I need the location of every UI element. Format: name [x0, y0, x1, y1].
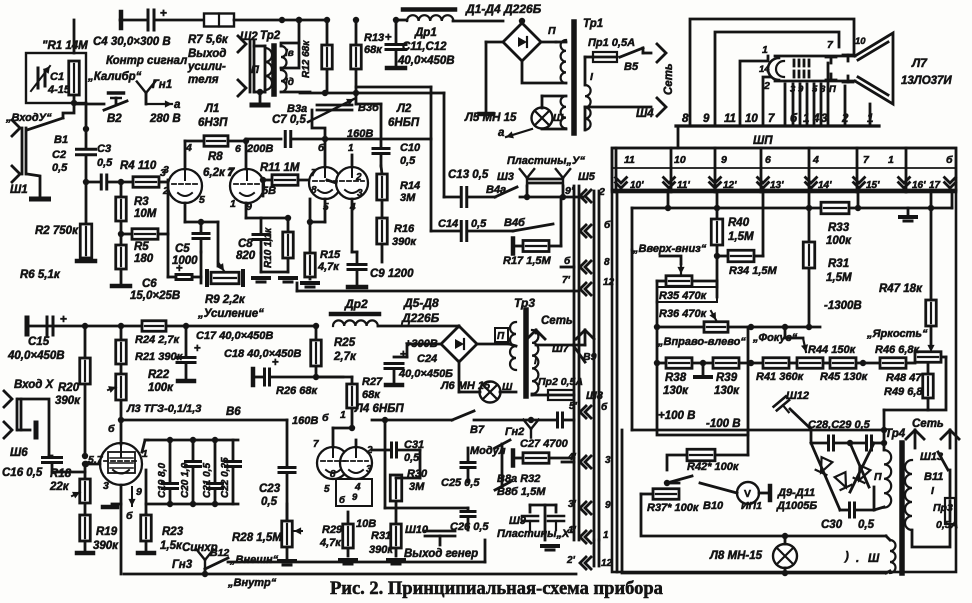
wire	[513, 457, 574, 460]
label plates Y	[507, 155, 585, 167]
label Vhod U	[5, 112, 52, 124]
svg-text:„Внешн“: „Внешн“	[229, 554, 279, 566]
svg-text:9: 9	[605, 500, 611, 511]
strip numbers	[624, 154, 953, 166]
potentiometer R9	[207, 262, 243, 285]
svg-text:R47 18к: R47 18к	[879, 283, 923, 295]
plate jack Sh5	[556, 169, 570, 197]
label VhodX	[14, 379, 55, 391]
transformer Tr2 winding II	[254, 46, 272, 92]
svg-text:0,5: 0,5	[404, 452, 420, 464]
svg-text:R9 2,2к: R9 2,2к	[205, 294, 246, 306]
label vverh-vniz	[632, 243, 707, 255]
svg-text:R27: R27	[362, 376, 383, 388]
resistor R15	[305, 253, 316, 277]
svg-text:V: V	[744, 488, 751, 500]
svg-text:40,0×450В: 40,0×450В	[7, 350, 65, 362]
wire	[18, 399, 49, 456]
svg-text:1,5М: 1,5М	[826, 272, 852, 284]
svg-text:Л3 ТГЗ-0,1/1,3: Л3 ТГЗ-0,1/1,3	[126, 403, 201, 415]
svg-text:5: 5	[199, 194, 205, 206]
label L8	[709, 550, 763, 562]
svg-text:В8а R32: В8а R32	[497, 473, 540, 485]
label vpravo-vlevo	[657, 336, 746, 348]
label kalibr	[87, 71, 142, 83]
svg-text:Пр1 0,5А: Пр1 0,5А	[588, 37, 635, 49]
label C10	[400, 142, 421, 167]
label III	[553, 112, 564, 124]
capacitor C1 box	[26, 53, 86, 103]
resistor R13	[351, 45, 362, 69]
svg-text:6: 6	[235, 143, 241, 155]
wire	[77, 502, 93, 553]
wire Sh6 gnd	[18, 423, 36, 437]
wire	[915, 430, 950, 448]
label Sh2	[240, 31, 258, 43]
wire	[641, 483, 679, 494]
svg-text:R37* 100к: R37* 100к	[647, 502, 700, 514]
label pin7	[827, 36, 866, 51]
svg-text:1: 1	[888, 154, 894, 166]
wire	[292, 136, 431, 142]
svg-text:3М: 3М	[400, 192, 416, 204]
pin 5	[323, 202, 356, 213]
svg-text:б: б	[946, 154, 953, 166]
resistor R45	[820, 358, 869, 383]
wire	[286, 420, 289, 521]
wire	[388, 482, 404, 564]
wire	[118, 323, 315, 329]
wire	[324, 139, 327, 167]
wire	[874, 443, 884, 510]
resistor R42	[687, 449, 740, 473]
svg-text:+: +	[194, 343, 201, 355]
svg-text:Ш: Ш	[868, 553, 880, 565]
wire	[536, 344, 585, 347]
svg-text:П: П	[251, 64, 260, 76]
ground mid	[695, 363, 711, 377]
label L1	[198, 103, 228, 129]
wire	[351, 155, 354, 167]
svg-text:0,5: 0,5	[97, 157, 113, 169]
svg-text:1,5М: 1,5М	[728, 231, 754, 243]
svg-text:П: П	[874, 471, 882, 483]
svg-text:6,2к 7: 6,2к 7	[203, 167, 235, 179]
ground R15	[302, 277, 318, 287]
wire	[378, 326, 459, 327]
label I 3	[534, 355, 538, 367]
pin 4	[185, 142, 192, 154]
svg-text:С6: С6	[142, 278, 157, 290]
wire	[118, 400, 124, 423]
choke Dr1	[403, 10, 455, 22]
capacitor C14	[461, 222, 467, 241]
svg-text:3: 3	[821, 113, 828, 125]
resistor R11	[260, 162, 300, 185]
capacitor C2	[77, 149, 96, 155]
ground	[253, 253, 296, 282]
resistor R41	[756, 358, 805, 383]
pin 5	[199, 194, 205, 206]
label R47	[879, 283, 923, 295]
rectifier bridge D1-D4	[503, 23, 541, 61]
chevron 4-3	[567, 452, 611, 468]
crt grids	[794, 60, 809, 77]
svg-text:С22 0,25: С22 0,25	[220, 457, 231, 498]
svg-text:R26 68к: R26 68к	[276, 385, 318, 397]
gun box L4	[336, 479, 372, 506]
svg-text:R5: R5	[134, 241, 149, 253]
capacitor C7	[272, 114, 306, 147]
svg-text:3: 3	[366, 464, 372, 475]
capacitor C3	[97, 143, 113, 189]
wire	[654, 360, 713, 366]
svg-text:390к: 390к	[392, 236, 417, 248]
svg-text:9': 9'	[565, 185, 574, 197]
switch B7	[452, 411, 485, 436]
label 160V 2	[292, 415, 318, 427]
connector net arrows	[906, 430, 959, 439]
switch B5	[620, 48, 643, 73]
arrow L3 down	[128, 487, 135, 506]
label 5V	[262, 185, 276, 197]
wire	[316, 377, 352, 428]
label B3a	[287, 103, 307, 115]
capacitor C30	[821, 503, 875, 531]
label R26	[276, 385, 318, 397]
svg-text:180: 180	[134, 253, 154, 265]
choke Dr2	[331, 314, 379, 326]
label C15	[7, 336, 65, 362]
capacitor C16	[2, 458, 62, 480]
crt heater	[768, 58, 784, 80]
label C13	[448, 169, 489, 181]
svg-text:10: 10	[674, 154, 686, 166]
tube L1	[168, 169, 264, 203]
resistor R25	[311, 337, 357, 366]
label L4	[354, 403, 404, 415]
wire	[385, 508, 468, 530]
svg-text:В2: В2	[107, 113, 122, 125]
capacitor C13	[461, 188, 467, 207]
label Id	[285, 77, 294, 88]
svg-text:П: П	[829, 84, 836, 95]
svg-text:R16: R16	[394, 223, 415, 235]
svg-text:R4 110: R4 110	[120, 160, 157, 172]
label R46	[875, 344, 921, 356]
svg-text:В1: В1	[54, 134, 68, 146]
label Sh7	[552, 343, 570, 355]
wire	[480, 42, 504, 114]
svg-text:3: 3	[163, 164, 169, 176]
svg-text:10': 10'	[630, 180, 644, 191]
svg-text:-100 В: -100 В	[706, 418, 741, 430]
svg-text:10В: 10В	[356, 518, 376, 530]
svg-text:Др2: Др2	[344, 297, 368, 311]
label pin numbers bottom	[682, 113, 873, 125]
wire	[393, 17, 399, 66]
label R28	[232, 532, 282, 544]
svg-text:Ш1: Ш1	[10, 184, 28, 196]
svg-text:1,5к: 1,5к	[160, 540, 183, 552]
wire Tr2 top	[296, 17, 302, 43]
label R16	[392, 223, 417, 248]
label Pr3 value	[936, 519, 958, 531]
switch B1	[27, 103, 74, 146]
svg-text:280 В: 280 В	[149, 113, 181, 125]
svg-text:7': 7'	[562, 275, 571, 286]
label C26	[450, 521, 489, 533]
wire lamp loop	[641, 494, 886, 536]
capacitor C26	[461, 512, 475, 517]
pin 1	[230, 198, 236, 210]
svg-text:130к: 130к	[663, 385, 689, 397]
resistor R23	[141, 515, 184, 552]
switch B9	[573, 345, 597, 363]
wire	[155, 19, 205, 22]
svg-text:„Усиление“: „Усиление“	[197, 308, 264, 320]
wire strip drops	[668, 192, 931, 208]
lamp L6	[440, 380, 513, 403]
svg-text:+: +	[385, 32, 392, 44]
wire X bus	[26, 318, 143, 334]
svg-text:Пластины„У“: Пластины„У“	[507, 155, 585, 167]
switch B3	[308, 99, 354, 139]
svg-text:6НБП: 6НБП	[388, 117, 420, 129]
capacitor C21	[202, 440, 223, 504]
transformer Tr3 winding II	[510, 322, 516, 370]
svg-text:68к: 68к	[364, 44, 383, 56]
wire	[168, 234, 201, 283]
switch B10	[664, 476, 724, 512]
svg-text:40,0×450В: 40,0×450В	[397, 55, 455, 67]
transformer Tr1 winding I	[585, 85, 591, 130]
transformer Tr4 winding I	[905, 460, 935, 530]
svg-text:3М: 3М	[409, 481, 425, 493]
svg-text:100к: 100к	[826, 235, 852, 247]
transformer Tr1 core	[571, 22, 577, 133]
label kontr	[106, 55, 187, 67]
svg-text:7: 7	[313, 439, 319, 450]
label R27	[362, 376, 383, 401]
wire B6 row	[121, 419, 287, 422]
wire	[654, 324, 754, 330]
wire	[747, 430, 750, 455]
svg-text:68к: 68к	[362, 389, 381, 401]
resistor R27	[347, 384, 358, 408]
label II 3	[495, 328, 508, 342]
crt funnel	[855, 33, 893, 104]
wire	[385, 420, 468, 508]
resistor R20	[55, 358, 90, 407]
diode D9	[816, 457, 833, 475]
svg-text:+300В: +300В	[405, 338, 438, 350]
svg-text:9: 9	[136, 486, 142, 498]
label C6	[130, 278, 180, 302]
capacitor C10	[373, 149, 389, 154]
label plastiny X	[497, 528, 575, 540]
transformer Tr4 winding III	[890, 540, 896, 573]
wire	[121, 233, 168, 236]
svg-text:Тр2: Тр2	[260, 30, 281, 42]
fuse Pr3	[945, 470, 955, 524]
svg-text:R38: R38	[665, 372, 687, 384]
wire plates row	[520, 194, 583, 200]
svg-text:R8: R8	[208, 151, 223, 163]
wire katode L1a	[185, 203, 204, 225]
tube L3	[100, 443, 142, 485]
resistor R33	[821, 202, 852, 247]
pin 57	[88, 448, 148, 498]
svg-text:Ш: Ш	[553, 112, 564, 124]
strip arrows	[616, 178, 956, 189]
svg-text:В7: В7	[470, 424, 485, 436]
svg-text:Л1: Л1	[204, 103, 219, 115]
svg-text:10М: 10М	[134, 208, 157, 220]
svg-text:В6: В6	[226, 406, 241, 418]
capacitor C31	[392, 443, 397, 457]
wire	[86, 181, 101, 184]
capacitor C9	[348, 265, 366, 270]
wire	[811, 410, 928, 443]
pin b top	[108, 423, 133, 522]
svg-text:теля: теля	[188, 74, 219, 86]
svg-text:R14: R14	[400, 180, 420, 192]
wire	[253, 369, 343, 385]
ground C11	[387, 66, 405, 71]
wire	[431, 93, 461, 231]
svg-text:Др1: Др1	[414, 27, 437, 39]
transformer Tr1 winding III	[561, 96, 566, 128]
capacitor C6	[176, 263, 192, 280]
label II	[548, 25, 556, 37]
wire anode up	[246, 139, 281, 141]
svg-text:С10: С10	[400, 142, 421, 154]
svg-text:R25: R25	[334, 337, 356, 349]
capacitor C20	[180, 440, 201, 504]
chevron 3-9	[568, 499, 611, 514]
wire main vertical	[83, 103, 89, 185]
label Sh9	[509, 515, 527, 527]
svg-text:1: 1	[340, 409, 346, 421]
label net3	[541, 315, 573, 327]
svg-text:R33: R33	[828, 222, 850, 234]
resistor R38	[663, 358, 692, 397]
svg-text:3: 3	[103, 480, 109, 492]
wire	[353, 17, 359, 104]
wire fokus stem	[751, 324, 820, 352]
svg-text:2': 2'	[566, 555, 576, 566]
svg-text:7: 7	[311, 168, 317, 179]
wire	[912, 524, 950, 547]
label 10V	[356, 518, 376, 530]
pin 6	[235, 143, 241, 155]
svg-text:390к: 390к	[369, 544, 394, 556]
svg-text:С5: С5	[175, 243, 190, 255]
chevron 9-2	[580, 190, 591, 202]
svg-text:С9 1200: С9 1200	[370, 268, 414, 280]
wire CRT loop1	[690, 19, 854, 125]
wire	[585, 57, 593, 85]
label L7	[901, 56, 952, 87]
svg-text:R46 6,8к: R46 6,8к	[875, 344, 921, 356]
connector Sh6	[4, 391, 28, 459]
jack Gn3	[172, 550, 213, 572]
label Pr1	[588, 37, 635, 49]
switch B8	[495, 440, 510, 490]
resistor R29	[343, 524, 354, 548]
wire IP1 bar	[759, 486, 770, 500]
label C25	[441, 477, 480, 489]
wire CRT baseline	[676, 126, 879, 148]
wire	[307, 199, 325, 253]
svg-text:0,5: 0,5	[400, 155, 416, 167]
svg-text:8: 8	[311, 185, 317, 196]
wire vnutr	[228, 540, 485, 562]
wire	[541, 41, 556, 44]
svg-text:R28 1,5М: R28 1,5М	[232, 532, 282, 544]
svg-text:1: 1	[603, 530, 609, 541]
wire	[200, 222, 203, 252]
wire	[542, 96, 566, 108]
rectifier bridge D5-D8	[441, 326, 477, 362]
label Sh5	[578, 171, 596, 183]
label C2	[52, 149, 68, 174]
svg-text:3: 3	[605, 455, 611, 466]
capacitor C1 trimmer	[31, 66, 50, 91]
connector Sh10	[405, 524, 455, 545]
svg-text:R36 470к: R36 470к	[659, 308, 708, 320]
label sinhr	[182, 542, 218, 554]
label pin1 top	[759, 44, 770, 92]
wire L3 cathode	[103, 485, 121, 574]
svg-text:40,0×450Б: 40,0×450Б	[398, 368, 453, 380]
wire	[356, 87, 431, 139]
svg-text:.: .	[856, 553, 859, 565]
svg-text:Л6 МН 15: Л6 МН 15	[440, 380, 491, 392]
label C9	[370, 268, 414, 280]
wire	[739, 360, 764, 366]
wire grid L2	[327, 180, 336, 183]
wire	[532, 394, 548, 395]
svg-text:R45 130к: R45 130к	[820, 371, 869, 383]
label 9p	[565, 185, 574, 197]
resistor R31v	[803, 242, 815, 268]
potentiometer R18	[72, 479, 90, 503]
svg-text:16': 16'	[912, 180, 926, 191]
crt plates	[826, 55, 853, 82]
potentiometer R28	[282, 521, 302, 547]
wire	[372, 449, 420, 452]
svg-text:100к: 100к	[148, 382, 174, 394]
svg-text:П: П	[497, 331, 505, 342]
chevron 5-6	[569, 401, 608, 418]
capacitor C29	[867, 436, 872, 450]
svg-text:ИП1: ИП1	[741, 500, 762, 512]
label 200V	[246, 143, 273, 155]
ground Sh9	[542, 505, 558, 550]
svg-text:С11,С12: С11,С12	[402, 41, 447, 53]
svg-text:R34 1,5М: R34 1,5М	[729, 265, 778, 277]
svg-text:б: б	[322, 412, 329, 424]
svg-text:6: 6	[765, 154, 771, 166]
svg-text:R20: R20	[58, 382, 80, 394]
wire	[530, 505, 556, 512]
chevron 6-8	[561, 255, 610, 273]
capacitor C17	[177, 343, 201, 363]
svg-text:Д226Б: Д226Б	[401, 311, 440, 325]
svg-text:Гн3: Гн3	[172, 559, 193, 571]
